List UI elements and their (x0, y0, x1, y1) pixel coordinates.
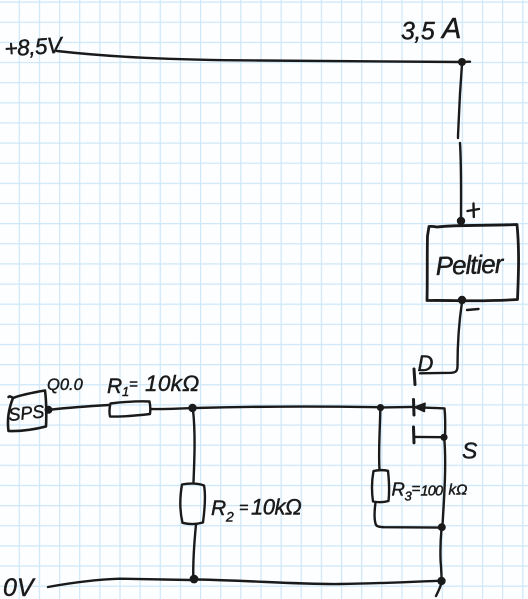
node source junction (440, 434, 447, 441)
wire source down to node C (443, 439, 446, 525)
net label Q0.0 (47, 376, 84, 394)
svg-text:kΩ: kΩ (449, 482, 468, 499)
wire node A down to R2 (193, 410, 195, 482)
svg-text:=: = (129, 376, 138, 393)
net label +8,5V (4, 32, 65, 61)
svg-text:Q0.0: Q0.0 (47, 376, 84, 394)
net label 0V (3, 574, 36, 599)
wire SPS to R1 (52, 405, 109, 410)
node C (source/R3 bottom junction) (438, 523, 446, 531)
svg-text:3,5: 3,5 (401, 18, 435, 46)
wire +8.5V top rail (57, 51, 470, 62)
svg-text:10kΩ: 10kΩ (145, 371, 200, 396)
transistor Q1 gate bar (412, 400, 416, 416)
svg-text:S: S (462, 438, 478, 464)
svg-text:10kΩ: 10kΩ (251, 495, 301, 520)
svg-text:A: A (440, 13, 461, 45)
polarity label - (467, 309, 479, 310)
transistor Q1 gate arrowhead (415, 403, 426, 411)
value label R2 = 10kOhm (211, 495, 301, 525)
resistor R3 (372, 470, 389, 502)
wire node B to gate arrow (383, 406, 413, 409)
wire node C to 0V rail (440, 529, 441, 580)
wire node B down to R3 (379, 410, 380, 470)
wire R1 to node A (151, 407, 191, 410)
pin label S (462, 438, 478, 464)
node 0V/R2 junction (190, 575, 199, 584)
pin label D (418, 351, 434, 376)
node Peltier - terminal (458, 296, 466, 304)
svg-text:D: D (418, 351, 434, 376)
SPS controller box (8, 391, 46, 432)
wire R3 bottom to node C (375, 503, 439, 528)
node top-right junction (458, 58, 466, 66)
transistor Q1 drain bar (414, 369, 415, 385)
node B (R3 tap junction) (377, 404, 384, 411)
svg-text:+8,5V: +8,5V (4, 32, 65, 61)
svg-text:0V: 0V (3, 574, 36, 599)
resistor R1 (109, 401, 150, 416)
wire Peltier to transistor drain (420, 302, 462, 373)
wire gate region to channel right leg (424, 408, 445, 437)
svg-text:R: R (211, 497, 226, 520)
node 0V/source junction (437, 577, 445, 585)
wire 0V rail (48, 579, 190, 587)
svg-text:=: = (239, 500, 248, 517)
label SPS (7, 401, 45, 425)
value label R3 = 100 kOhm (392, 479, 468, 504)
node A (R1/R2/bus junction) (188, 404, 196, 412)
resistor R2 (180, 484, 205, 524)
wire from top rail down to Peltier (with pen gap) (458, 64, 462, 138)
wire pen tail below node (436, 585, 441, 597)
svg-text:2: 2 (225, 509, 234, 525)
svg-text:R: R (107, 375, 122, 398)
net label 3,5 A (401, 13, 461, 46)
svg-text:100: 100 (421, 484, 444, 500)
wire R2 bottom to 0V rail (193, 525, 196, 579)
svg-text:SPS: SPS (7, 401, 45, 425)
wire source bar to channel leg (415, 436, 443, 439)
node SPS output (45, 406, 53, 414)
label Peltier (435, 249, 505, 281)
svg-text:=: = (412, 481, 421, 498)
wire 0V rail right section (198, 580, 438, 585)
Peltier element box (427, 225, 519, 301)
value label R1 = 10kOhm (107, 371, 200, 399)
transistor Q1 source bar (412, 427, 416, 443)
svg-text:R: R (392, 479, 405, 500)
wire node A to node B (gate bus) (195, 407, 378, 408)
node Peltier + terminal (457, 217, 465, 225)
svg-text:Peltier: Peltier (435, 249, 505, 281)
polarity label + (468, 204, 480, 218)
